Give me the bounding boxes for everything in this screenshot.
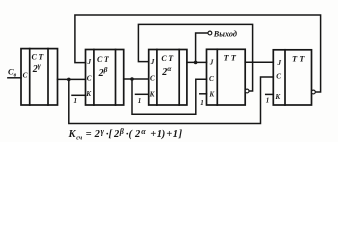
svg-text:TT: TT xyxy=(224,53,238,63)
svg-text:β: β xyxy=(119,127,125,136)
formula K_sch = 2^gamma [2^beta (2^alpha+1)+1] xyxy=(68,127,183,141)
counter U1 left divider xyxy=(29,49,31,105)
svg-text:1: 1 xyxy=(138,97,142,105)
svg-text:CT: CT xyxy=(97,55,110,64)
counter U2 left divider xyxy=(93,50,95,106)
svg-text:1: 1 xyxy=(173,129,178,140)
junction dot node B xyxy=(130,77,134,81)
svg-text:Cв: Cв xyxy=(8,66,17,78)
svg-text:2β: 2β xyxy=(98,65,108,79)
counter U1 right divider xyxy=(47,49,49,105)
flip-flop U4 box TT xyxy=(207,49,246,105)
junction dot node A xyxy=(67,78,71,82)
svg-text:C: C xyxy=(276,72,281,80)
wire U1.Q to U2.C xyxy=(58,78,86,80)
svg-text:J: J xyxy=(209,58,214,66)
svg-text:2: 2 xyxy=(94,129,101,140)
svg-text:K: K xyxy=(208,91,215,99)
svg-text:]: ] xyxy=(178,129,183,140)
counter U2 box CT 2^beta xyxy=(86,50,124,106)
svg-text:CT: CT xyxy=(32,53,45,62)
wire U5.Qbar to outer feedback to U2.J xyxy=(75,15,321,92)
flip-flop U5 box TT xyxy=(273,50,311,105)
svg-text:J: J xyxy=(150,58,155,66)
svg-text:TT: TT xyxy=(292,54,306,64)
svg-text:Выход: Выход xyxy=(213,29,237,38)
wire constant-1 stub U2.K xyxy=(72,94,86,96)
svg-text:J: J xyxy=(277,59,282,67)
counter U3 right divider xyxy=(178,50,180,106)
wire node B drop to inner bottom bus to U4.C xyxy=(132,79,207,114)
svg-text:K: K xyxy=(274,93,281,101)
wire constant-1 stub U3.K xyxy=(136,93,149,95)
svg-text:C: C xyxy=(23,72,28,80)
svg-text:C: C xyxy=(209,75,214,83)
wire U4.Qbar to inner feedback to U3.J xyxy=(138,24,252,91)
svg-text:2: 2 xyxy=(134,129,141,140)
wire U4.Q to U5.J xyxy=(245,61,273,63)
svg-text:+: + xyxy=(150,129,156,140)
counter U3 left divider xyxy=(156,50,158,106)
svg-text:·(: ·( xyxy=(126,129,134,140)
inverted output bubble U4 xyxy=(245,89,249,93)
wire constant-1 stub U5.K xyxy=(266,93,274,95)
svg-text:K: K xyxy=(68,129,77,140)
flip-flop U4 divider xyxy=(216,49,218,105)
svg-text:·[: ·[ xyxy=(106,129,114,140)
counter U2 right divider xyxy=(115,50,117,106)
svg-text:+: + xyxy=(166,129,172,140)
svg-text:=: = xyxy=(86,129,92,140)
wire node A drop to outer bottom bus to U5.C xyxy=(69,77,273,124)
svg-text:α: α xyxy=(141,127,146,136)
svg-text:K: K xyxy=(85,90,92,98)
counter U3 box CT 2^alpha xyxy=(149,50,187,106)
wire constant-1 stub U4.K xyxy=(200,93,207,95)
wire U2.Q to U3.C xyxy=(124,78,149,80)
output terminal circle xyxy=(208,31,212,35)
svg-text:2γ: 2γ xyxy=(32,61,42,75)
svg-text:сч: сч xyxy=(76,134,83,141)
svg-text:1: 1 xyxy=(200,99,204,107)
wire U3.Q to U4.J xyxy=(187,61,207,63)
svg-text:K: K xyxy=(149,90,156,98)
svg-text:2α: 2α xyxy=(161,64,172,78)
svg-text:J: J xyxy=(87,58,92,66)
inverted output bubble U5 xyxy=(312,90,316,94)
counter U1 box CT 2^gamma xyxy=(21,49,58,105)
wire output tap up to terminal xyxy=(196,33,208,62)
svg-text:CT: CT xyxy=(161,54,174,63)
svg-text:): ) xyxy=(161,129,166,140)
junction dot output node xyxy=(194,61,198,65)
svg-text:γ: γ xyxy=(101,127,105,136)
svg-text:C: C xyxy=(150,75,155,83)
svg-text:1: 1 xyxy=(74,97,78,105)
svg-text:1: 1 xyxy=(266,97,270,105)
svg-text:C: C xyxy=(87,74,92,82)
flip-flop U5 divider xyxy=(284,50,286,105)
wire input Cv to U1.C xyxy=(8,77,21,79)
